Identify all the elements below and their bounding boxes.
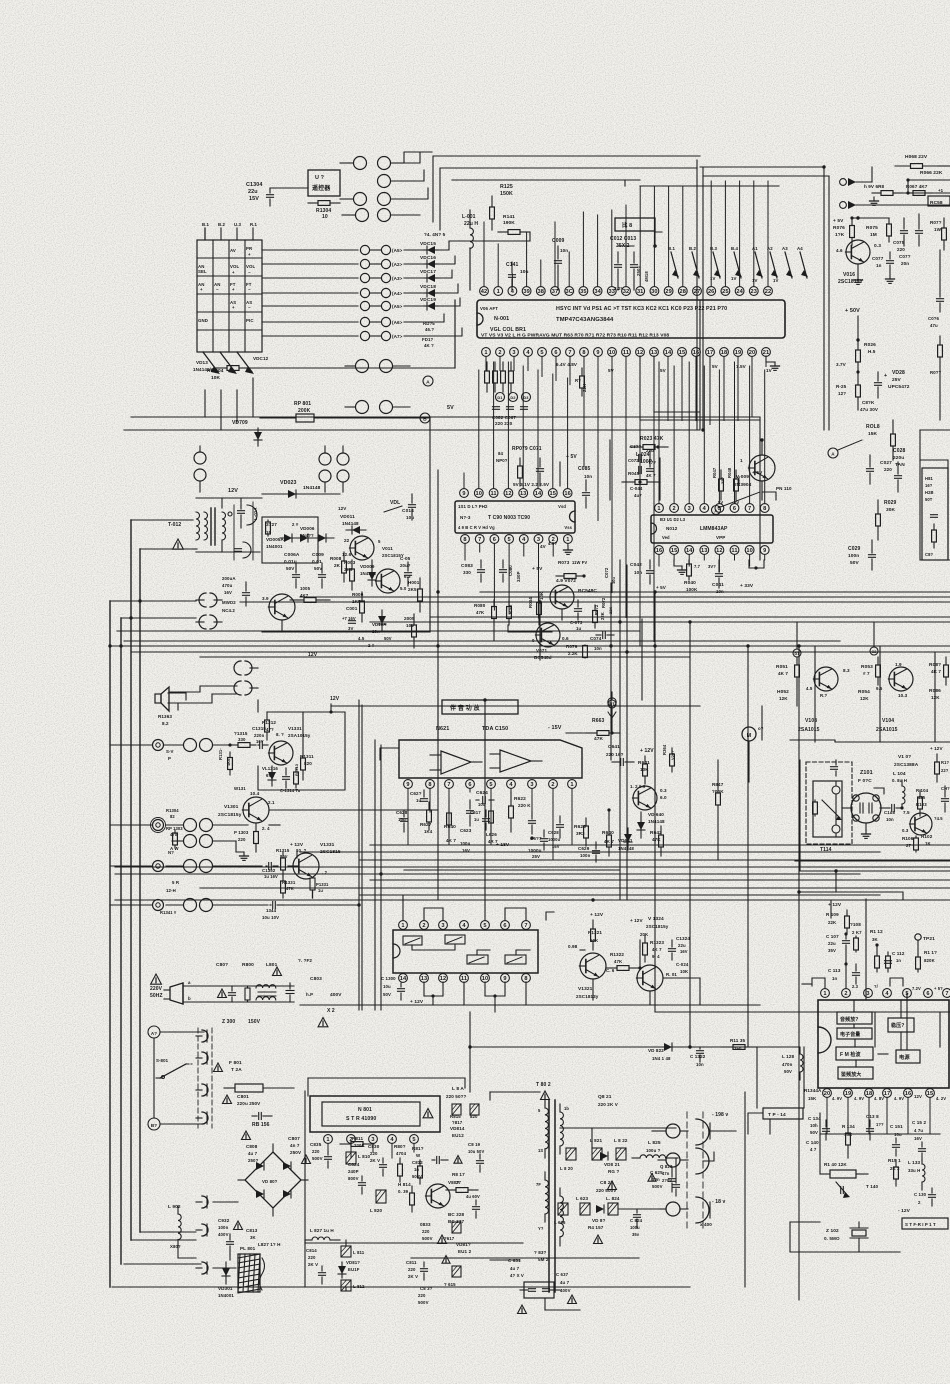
svg-text:0.01: 0.01 [312,559,322,565]
wire smps bottom rail [305,1091,639,1258]
resistor R1322 47K [606,952,642,970]
svg-text:+ 33V: + 33V [740,583,754,589]
svg-text:9: 9 [462,491,465,497]
svg-text:8.3: 8.3 [843,668,850,673]
resistor H052 12K [777,685,797,706]
resistor R005 4K7 [290,586,330,602]
svg-text:10n: 10n [652,1177,660,1182]
svg-text:C083: C083 [461,563,473,569]
svg-text:R80?: R80? [394,1144,406,1149]
svg-text:+ 50V: + 50V [845,308,860,314]
warning triangle mains [150,974,163,999]
svg-text:C080: C080 [508,565,513,576]
wire v1324 outputs [663,978,700,1005]
resistor R-6R8 [864,184,950,195]
svg-text:VD81?: VD81? [456,1242,471,1247]
svg-text:10n: 10n [584,474,592,479]
svg-text:C623: C623 [460,828,472,833]
svg-text:10: 10 [322,214,328,220]
svg-text:C0?6: C0?6 [928,316,940,321]
svg-text:500V: 500V [312,1156,323,1161]
wire N-001 bottom pin drops [486,357,766,642]
svg-text:84: 84 [498,451,504,456]
svg-text:L801: L801 [266,962,278,968]
resistor R817 27 [446,1172,478,1192]
svg-text:22: 22 [344,538,350,543]
resistor R1315 330 [232,731,256,747]
degauss connector arc1 [196,1030,208,1042]
capacitor C107 22u 35V [826,932,850,953]
resistor R07x 1W [930,218,946,250]
capacitor C834 220 500V [418,1286,433,1305]
resistor R072 22K [593,604,605,628]
svg-text:820K: 820K [924,958,936,963]
svg-text:Z 102: Z 102 [826,1228,839,1234]
connector arcs bottom2 [196,1224,208,1236]
jumper diodes B1-B4 above pins [668,246,742,278]
svg-text:L 623: L 623 [576,1196,588,1201]
label n101 bottom volts [832,1094,946,1101]
svg-text:H81: H81 [925,476,933,481]
svg-text:C006A: C006A [284,552,300,558]
svg-text:1: 1 [566,537,569,543]
wire ne21 bottom rail [404,869,620,871]
transistor V013 [375,569,411,593]
component 2005 10V [404,614,416,648]
transistor V801 BC328 [425,1180,464,1224]
svg-text:D3: D3 [523,395,529,400]
IC N1301 top pins [399,921,531,930]
wire tp14 down verticals [757,1047,770,1134]
capacitor C830 220 2KV [368,1144,387,1176]
svg-text:0833: 0833 [420,1222,431,1227]
svg-text:2SC1815y: 2SC1815y [218,812,242,818]
n101 subbox amp2 [838,1067,873,1079]
diode VD009 1N4146 [360,560,376,586]
svg-text:1u: 1u [474,817,479,822]
wire vertical x359-381 center [359,700,381,1010]
svg-text:10.3: 10.3 [898,693,908,698]
capacitor C028 mid 220u TAN [0,0,1,1]
capacitor C07x 20n [899,214,923,266]
svg-text:12V: 12V [330,696,340,702]
capacitor C1314 [280,768,301,793]
svg-text:22?: 22? [941,768,949,773]
svg-text:1344: 1344 [266,908,277,913]
svg-text:10n: 10n [560,248,568,253]
wire bundle y845-860 [300,845,950,860]
svg-text:4u 7: 4u 7 [510,1266,520,1271]
svg-text:V011: V011 [382,546,393,551]
diode VD006 1N4003 [300,526,334,542]
svg-text:220: 220 [408,1267,416,1272]
svg-text:16?: 16? [925,483,933,488]
wire left-bottom frame [131,1232,196,1240]
svg-text:32: 32 [623,289,630,295]
svg-text:16V: 16V [552,844,560,849]
junction dots bus crossings [108,165,859,1048]
svg-text:R800: R800 [242,962,254,968]
label +12V n101 [828,902,842,908]
svg-text:V1301: V1301 [224,804,239,810]
svg-text:4: 4 [526,350,530,356]
svg-text:C 134: C 134 [808,1116,821,1121]
svg-text:6.4V 4.8V: 6.4V 4.8V [556,362,578,367]
resistor R034 10K [528,591,544,625]
svg-text:V1321: V1321 [578,986,593,992]
transistor V1321 2SC1813 [576,953,615,999]
IC NE21 body outline [399,740,582,778]
svg-text:20: 20 [824,1091,831,1097]
svg-text:220: 220 [897,247,905,252]
svg-text:R034: R034 [528,597,533,608]
svg-text:47n: 47n [662,1171,670,1176]
svg-text:10: 10 [482,976,489,982]
svg-text:12V: 12V [228,488,238,494]
resistor R086 12K [929,688,941,700]
resistor RP-004 10K [207,300,455,381]
resistor R-13 vertical with label [575,368,587,396]
svg-text:L 104: L 104 [893,771,906,777]
wire bottom-left links [178,1202,238,1268]
svg-text:C042: C042 [630,562,642,568]
resistor R1304 [308,201,340,220]
svg-text:R141: R141 [503,214,515,220]
IC N101 top pin row [821,989,950,998]
svg-text:47K: 47K [286,886,294,891]
wire horizontal y1005 [300,1004,760,1006]
diode D1 bottom diamond [608,692,616,718]
svg-text:100u: 100u [460,841,471,846]
svg-text:500V: 500V [422,1236,433,1241]
capacitor C151 10u [890,1124,903,1156]
svg-text:1: 1 [326,1137,329,1143]
svg-text:X 2: X 2 [327,1008,335,1014]
svg-text:R008: R008 [330,556,342,561]
svg-text:C009: C009 [552,238,564,244]
svg-text:2: 2 [844,991,847,997]
svg-text:1n: 1n [896,958,901,963]
keypad matrix table [197,240,262,352]
svg-text:VD 822: VD 822 [648,1048,664,1053]
resistor R108 2K7 [850,922,862,952]
inductor L902 [168,1204,181,1249]
switch cell 1 [403,936,422,945]
svg-text:0.6: 0.6 [562,636,569,641]
svg-text:13: 13 [701,548,708,554]
svg-text:100u ?: 100u ? [646,1148,661,1153]
svg-text:1N4148: 1N4148 [648,819,665,824]
capacitor C009b 0.01 50V [312,552,326,588]
label C072 R072 left edge [601,567,616,614]
inductor L817 hatched [444,1222,461,1241]
ceramic filter Z101 body [842,793,890,823]
inductor L812 hatched [341,1280,365,1291]
wire n1301 bottom bends [424,982,526,1012]
svg-text:3727: 3727 [266,522,277,528]
svg-text:C072: C072 [604,567,609,578]
wire VDC risers [424,241,530,336]
svg-text:R040: R040 [684,580,696,586]
svg-text:50V: 50V [784,1069,792,1074]
svg-text:250?: 250? [248,1158,259,1163]
svg-text:2K: 2K [334,563,341,568]
svg-text:C811: C811 [406,1260,417,1265]
svg-text:220 16?: 220 16? [606,752,624,757]
svg-text:C. 6: C. 6 [606,968,615,973]
svg-text:N?-3: N?-3 [460,515,471,520]
wire top-left horizontal bus [110,520,197,618]
resistor R051 4K7 [776,657,799,685]
svg-text:220: 220 [238,837,246,842]
wire top rails above N-001 [433,156,700,230]
svg-text:1S1 D L? PH2: 1S1 D L? PH2 [458,504,488,509]
resistor R627 1K4 [420,802,433,834]
svg-text:V1 0?: V1 0? [898,754,911,760]
sound IF block 3727 discriminator [262,517,318,563]
svg-text:35: 35 [580,289,587,295]
svg-text:27: 27 [456,1180,462,1185]
svg-text:10u: 10u [383,984,391,989]
svg-text:# 7: # 7 [863,671,870,676]
wire sec1 rail [560,1128,676,1148]
svg-text:4: 4 [390,1137,394,1143]
svg-text:6: 6 [926,991,929,997]
svg-text:Vsd: Vsd [558,504,566,509]
svg-text:4K 7: 4K 7 [446,838,456,843]
svg-text:330: 330 [463,570,471,575]
diode VD011 1N4148 [338,506,366,534]
svg-text:C072: C072 [628,458,639,463]
svg-text:(A6>: (A6> [392,320,403,325]
svg-text:C808: C808 [246,1144,258,1149]
node B circled [420,413,430,423]
resonator X1 4M [618,232,662,252]
svg-text:3C: 3C [565,289,572,295]
svg-text:400V: 400V [330,992,342,998]
svg-text:10: 10 [476,491,483,497]
svg-text:N 801: N 801 [358,1107,372,1113]
svg-text:18: 18 [721,350,728,356]
svg-text:C813: C813 [246,1228,258,1233]
capacitor C-005 [400,556,412,586]
svg-text:22K: 22K [736,476,741,484]
resistor R1323 4K7 [643,936,665,962]
svg-text:F 801: F 801 [229,1060,242,1066]
svg-text:50HZ: 50HZ [150,993,163,999]
svg-text:12?: 12? [838,391,846,396]
svg-text:VD023: VD023 [280,480,296,486]
wire smps outer box [308,1078,465,1096]
svg-text:−: − [248,305,251,310]
svg-text:+7 16V: +7 16V [342,616,356,621]
svg-text:R622: R622 [514,796,526,802]
resistor R1303 220 [234,823,270,852]
svg-text:R073: R073 [558,560,570,565]
zener VD28 25V UPC5472 [875,370,910,398]
svg-text:4: 4 [885,991,889,997]
svg-text:Q8 21: Q8 21 [598,1094,612,1100]
degauss connector arc4 [196,1112,208,1124]
label 1N4148/5 [424,232,446,237]
connector pair V2 [319,446,331,492]
svg-text:13: 13 [421,976,428,982]
svg-text:6: 6 [503,923,506,929]
svg-text:220u 250V: 220u 250V [237,1101,261,1106]
wire x690 drop [689,622,691,1047]
diode VD822 R4157 [588,1205,606,1244]
label 12V bottom [308,652,318,658]
svg-text:6: 6 [468,782,471,788]
relay RL801 [238,1246,265,1293]
svg-text:11W FV: 11W FV [572,560,587,565]
svg-text:10K: 10K [211,375,221,381]
resistor R1344A 15K [804,1088,822,1101]
bridge rectifier VD801-804 [238,1144,308,1216]
svg-text:22?: 22? [720,476,725,484]
svg-text:+ 5V: + 5V [752,470,763,476]
svg-text:R072: R072 [594,604,599,615]
resistor R131 1K6 [218,748,232,775]
svg-text:L 128: L 128 [782,1054,794,1059]
svg-text:10n: 10n [886,817,894,822]
label +12V v640 [640,748,654,754]
svg-text:12: 12 [505,491,512,497]
resistor R809 4704 [394,1144,407,1182]
svg-text:+: + [232,287,235,292]
svg-text:HSYC INT Vd PS1 AC >T: HSYC INT Vd PS1 AC >T TST KC3 KC2 KC1 KC… [556,306,727,312]
svg-text:UPC5472: UPC5472 [888,384,910,390]
label Z300 150V [222,1019,261,1025]
capacitor C084 [500,560,507,582]
switch cell 3 [467,955,488,964]
wire t802 left rail [490,1092,540,1100]
svg-text:RG ?: RG ? [608,1169,619,1174]
IC N-012 top pins [655,504,770,513]
inductor L626 4R7 [486,800,498,844]
wire bundle y886-900 [115,888,950,900]
svg-text:D1: D1 [497,395,503,400]
svg-text:2 #: 2 # [368,643,375,648]
svg-text:L 8 22: L 8 22 [614,1138,628,1143]
svg-text:R4 157: R4 157 [588,1225,604,1230]
svg-text:BC548C: BC548C [578,588,597,594]
svg-text:4.6: 4.6 [836,248,843,253]
diode D1 small circle [793,622,801,657]
transformer T802 aux winding [536,1172,548,1231]
svg-text:L 902: L 902 [168,1204,181,1210]
label +5V rp079 [560,454,577,486]
capacitor C628b 1000u 16V [548,816,564,849]
svg-text:?108: ?108 [850,922,861,927]
svg-text:10: 10 [746,548,753,554]
inductor L820b hatched [560,1148,576,1171]
wire n012 risers [659,362,765,504]
svg-text:150K: 150K [500,191,513,197]
diode VD811 EU1F [338,1260,360,1278]
svg-text:220: 220 [884,467,892,472]
jack in5 [153,888,177,915]
wire button bends top-left [391,152,432,199]
resistor R08x 4K7 [929,657,948,685]
capacitor C803 [286,976,342,1002]
node B1 circled [148,1118,160,1130]
svg-text:C13 8: C13 8 [866,1114,879,1119]
right edge partial IC frame [920,460,948,560]
resistor R642 47K [650,826,663,856]
svg-text:C077: C077 [872,256,884,261]
svg-text:5: 5 [538,1108,541,1113]
connector pair row FD17 [262,331,424,340]
svg-text:200uA: 200uA [222,576,236,581]
transformer T802 label [536,1082,551,1100]
svg-text:14: 14 [400,976,407,982]
svg-text:C-05: C-05 [400,556,411,561]
svg-text:VT VS V3 V2 L H G: VT VS V3 V2 L H G PWRAVG MUT R63 R70 R71… [481,333,669,339]
svg-text:10u 50V: 10u 50V [468,1149,484,1154]
svg-text:TAN: TAN [895,462,905,468]
capacitor C800 [229,986,236,1002]
label v1324 block [630,916,669,937]
svg-text:R1 12: R1 12 [870,929,883,934]
svg-text:R1341 #: R1341 # [160,910,177,915]
resistor R364 V20 [662,744,675,772]
svg-text:26: 26 [708,289,715,295]
inductor L822 hatched [614,1138,628,1160]
svg-text:19: 19 [845,1091,852,1097]
svg-text:+1: +1 [938,188,944,193]
output circle B2 [658,1153,688,1167]
svg-text:22u: 22u [248,189,258,195]
label V103 2SC1388A [894,754,919,768]
svg-text:25V: 25V [892,377,902,383]
capacitor C083 330 [461,560,485,582]
svg-text:A: A [831,452,835,457]
diode VDC17 1N4148 [420,269,438,282]
svg-text:C075: C075 [893,240,905,245]
svg-text:47K: 47K [614,959,623,964]
svg-text:R076: R076 [833,225,845,231]
resistor R112 3K [870,929,890,972]
label L104 [892,771,907,783]
IC NE21 pin row [404,780,577,789]
svg-text:5M 2: 5M 2 [538,1257,549,1262]
capacitor C641 220 16 [606,744,634,766]
svg-text:A4: A4 [797,246,803,251]
wire top-right entry rails [700,167,829,176]
svg-text:C1304: C1304 [246,182,263,188]
svg-text:7: 7 [568,350,571,356]
svg-text:C041: C041 [712,582,724,588]
svg-text:7F: 7F [536,1182,541,1187]
svg-text:−: − [248,270,251,275]
ground sym pin21 [766,356,780,370]
svg-text:220V: 220V [150,986,163,992]
svg-text:4: 4 [462,923,466,929]
wire tp14 frame [748,1047,940,1174]
svg-text:R07?: R07? [930,220,942,225]
wire top right angle [872,167,908,193]
svg-text:220 500V: 220 500V [596,1188,617,1193]
resistor R815 820 [450,1114,478,1119]
label Z101 F0 [858,770,884,794]
svg-text:4: 4 [511,289,515,295]
svg-text:9: 9 [763,548,766,554]
svg-text:10. ?: 10. ? [296,848,307,853]
svg-text:1: 1 [497,289,500,295]
svg-text:ROL8: ROL8 [866,424,880,430]
resistor R1311 820 [300,712,314,780]
